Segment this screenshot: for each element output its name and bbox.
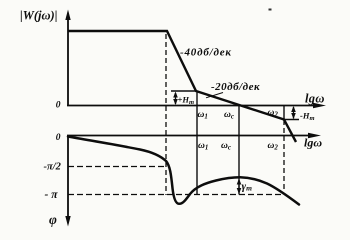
svg-text:- π: - π [45,189,59,201]
magnitude y-axis [65,10,70,107]
dashed -pi/2 line [68,166,166,168]
svg-text:φ: φ [49,212,57,227]
-Hm arrow [291,106,296,119]
vertical line at w2 [283,106,285,121]
svg-text:ωc: ωc [221,141,231,152]
magnitude x-axis lg w [67,103,326,109]
svg-text:ω2: ω2 [268,141,279,152]
magnitude asymptote curve [68,31,296,142]
svg-text:-20дб/дек: -20дб/дек [211,81,260,93]
svg-text:lgω: lgω [305,91,325,105]
+Hm arrow [173,92,178,106]
-Hm bar [284,119,299,121]
dashed -pi line [68,194,282,196]
+Hm bar [171,90,197,92]
svg-text:0: 0 [56,100,61,110]
svg-text:ω2: ω2 [268,108,279,119]
phase curve [68,137,299,205]
phase x-axis [67,133,321,139]
svg-text:-π/2: -π/2 [44,162,62,173]
svg-text:-40дб/дек: -40дб/дек [180,47,232,59]
phase y-axis [65,135,70,227]
vertical line at w1 [196,91,198,195]
svg-text:0: 0 [56,133,61,143]
svg-text:lgω: lgω [304,135,322,149]
svg-text:+Hm: +Hm [178,95,195,107]
gamma_m arrow [237,179,242,195]
dashed vertical at first break [165,34,167,195]
scan speck [269,9,272,11]
leader line for -20 db/dek [206,93,223,98]
svg-text:-Hm: -Hm [300,111,315,123]
vertical line at wc [238,106,240,195]
svg-text:ω1: ω1 [198,110,208,121]
svg-text:ωc: ωc [224,110,234,121]
svg-text:|W(jω)|: |W(jω)| [20,9,57,23]
svg-text:γm: γm [242,180,253,192]
dashed vertical at w2 lower [283,120,285,191]
svg-text:ω1: ω1 [198,141,208,152]
